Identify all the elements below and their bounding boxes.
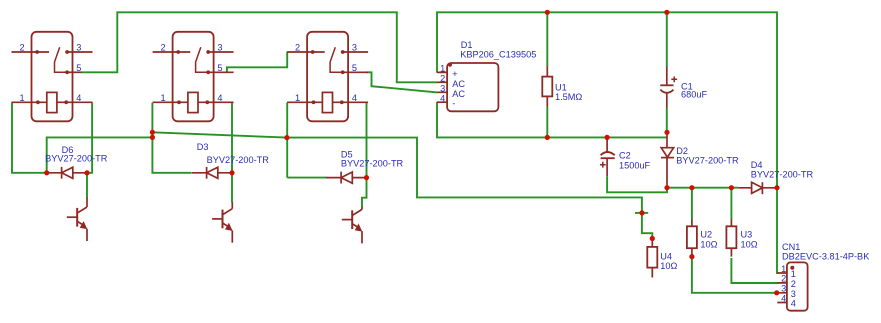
svg-text:D3: D3 (197, 142, 209, 152)
junction (774, 290, 779, 295)
junction (774, 185, 779, 190)
svg-text:10Ω: 10Ω (700, 240, 717, 250)
svg-text:U1: U1 (555, 83, 567, 93)
wire (666, 12, 668, 66)
wire (231, 103, 233, 203)
svg-text:680uF: 680uF (681, 90, 707, 100)
svg-text:2: 2 (791, 279, 796, 289)
junction (664, 185, 669, 190)
svg-text:1500uF: 1500uF (619, 161, 651, 171)
diode D2 BYV27-200-TR (661, 132, 674, 187)
svg-text:4: 4 (76, 93, 81, 103)
svg-text:3: 3 (781, 284, 786, 294)
diode D6 BYV27-200-TR (47, 167, 87, 179)
svg-text:U3: U3 (741, 230, 753, 240)
svg-text:3: 3 (791, 289, 796, 299)
wire (730, 188, 732, 220)
svg-text:2: 2 (440, 74, 445, 84)
junction (545, 135, 550, 140)
svg-text:10Ω: 10Ω (741, 240, 758, 250)
svg-text:5: 5 (352, 63, 357, 73)
bridge rectifier D1 KBP206_C139505 (437, 63, 498, 112)
svg-text:1: 1 (295, 93, 300, 103)
wire (666, 109, 668, 133)
junction (729, 185, 734, 190)
svg-text:1: 1 (161, 93, 166, 103)
wire (667, 187, 738, 189)
svg-text:4: 4 (791, 299, 796, 309)
capacitor C2 1500uF (600, 137, 615, 176)
wire (81, 12, 438, 82)
resistor U2 10Ohm (687, 219, 697, 257)
junction (84, 170, 89, 175)
diode D3 BYV27-200-TR (192, 167, 232, 179)
junction (364, 175, 369, 180)
svg-text:BYV27-200-TR: BYV27-200-TR (341, 158, 404, 168)
capacitor C1 680uF (660, 67, 677, 109)
svg-text:10Ω: 10Ω (660, 261, 677, 271)
wire (731, 258, 778, 283)
relay 3 (287, 32, 368, 122)
svg-text:1: 1 (781, 264, 786, 274)
junction (664, 130, 669, 135)
wire (287, 138, 642, 213)
svg-text:BYV27-200-TR: BYV27-200-TR (207, 155, 270, 165)
svg-text:2: 2 (781, 274, 786, 284)
svg-text:4: 4 (352, 93, 357, 103)
wire (87, 103, 92, 173)
svg-text:2: 2 (161, 43, 166, 53)
relay 2 (153, 32, 234, 122)
transistor Q2 (212, 202, 233, 243)
svg-text:BYV27-200-TR: BYV27-200-TR (45, 153, 108, 163)
svg-text:+: + (452, 69, 457, 79)
junction (605, 135, 610, 140)
svg-text:1: 1 (440, 64, 445, 74)
svg-text:3: 3 (217, 43, 222, 53)
svg-text:C2: C2 (619, 151, 631, 161)
svg-text:4: 4 (440, 94, 445, 104)
svg-text:1: 1 (19, 93, 24, 103)
wire (692, 257, 778, 293)
svg-text:5: 5 (217, 63, 222, 73)
junction (650, 236, 655, 241)
svg-text:3: 3 (440, 84, 445, 94)
relay 1 (12, 32, 93, 122)
svg-text:-: - (452, 98, 455, 108)
junction (44, 170, 49, 175)
junction (639, 210, 644, 215)
svg-text:KBP206_C139505: KBP206_C139505 (460, 49, 536, 59)
wire (546, 12, 548, 66)
svg-text:AC: AC (452, 89, 465, 99)
wire (546, 107, 548, 137)
junction (150, 135, 155, 140)
diode D5 BYV27-200-TR (326, 172, 366, 184)
svg-text:4: 4 (217, 93, 222, 103)
wire (607, 176, 667, 192)
wire (227, 52, 287, 73)
resistor U4 10Ohm (647, 239, 657, 278)
junction (284, 135, 289, 140)
wire (777, 188, 778, 273)
wire (12, 103, 47, 173)
wire (152, 132, 287, 137)
svg-text:1.5MΩ: 1.5MΩ (555, 92, 582, 102)
transistor Q1 (67, 197, 88, 241)
wire (362, 103, 367, 208)
svg-text:5: 5 (76, 63, 81, 73)
wire (691, 188, 693, 220)
svg-text:BYV27-200-TR: BYV27-200-TR (751, 170, 814, 180)
svg-text:U2: U2 (700, 230, 712, 240)
connector CN1 DB2EVC-3.81-4P-BK (777, 262, 807, 310)
wire (286, 103, 288, 178)
svg-text:AC: AC (452, 79, 465, 89)
svg-text:DB2EVC-3.81-4P-BK: DB2EVC-3.81-4P-BK (782, 251, 870, 261)
wire (642, 213, 652, 239)
wire (437, 102, 667, 137)
diode D4 BYV27-200-TR (738, 182, 777, 194)
junction (689, 254, 694, 259)
wire (47, 137, 153, 172)
resistor U1 1.5MOhm (542, 66, 552, 107)
wire (287, 177, 327, 179)
svg-text:2: 2 (19, 43, 24, 53)
svg-text:BYV27-200-TR: BYV27-200-TR (676, 155, 739, 165)
svg-text:3: 3 (76, 43, 81, 53)
resistor U3 10Ohm (726, 219, 736, 257)
wire (152, 103, 191, 173)
wire (437, 12, 777, 187)
wire (86, 173, 88, 198)
wire (367, 72, 438, 92)
svg-text:4: 4 (781, 293, 786, 303)
svg-text:1: 1 (791, 269, 796, 279)
junction (664, 10, 669, 15)
junction (545, 10, 550, 15)
svg-text:3: 3 (352, 43, 357, 53)
transistor Q3 (342, 207, 363, 244)
wire (635, 212, 648, 214)
junction (689, 185, 694, 190)
junction (229, 170, 234, 175)
junction (150, 130, 155, 135)
svg-text:2: 2 (295, 43, 300, 53)
